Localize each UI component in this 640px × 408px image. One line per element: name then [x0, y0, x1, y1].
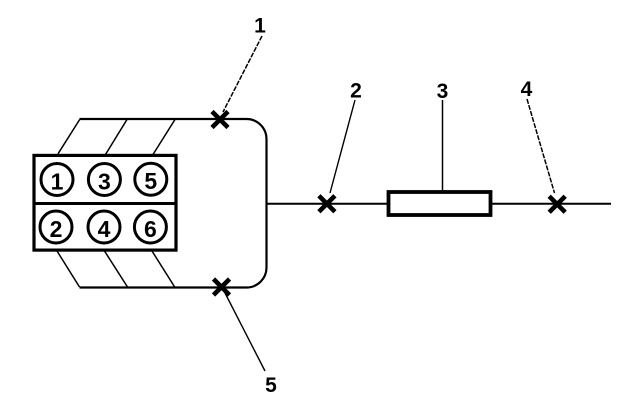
svg-text:2: 2 [350, 79, 362, 102]
cavity 4 [88, 211, 120, 243]
leader line to label 3 [442, 100, 444, 191]
svg-text:3: 3 [437, 80, 449, 103]
cavity 2 [40, 211, 72, 243]
test point X2 [319, 196, 335, 212]
test point X4 [549, 196, 565, 212]
test point X1 [212, 112, 228, 128]
housing divider [33, 202, 177, 205]
connector body outline (blob) [80, 119, 267, 288]
svg-text:1: 1 [254, 15, 266, 38]
leader line to label 1 [223, 36, 262, 112]
hatch wire B2 (bottom middle) [105, 251, 128, 287]
leader line to label 4 [527, 99, 555, 193]
test point X5 [214, 279, 230, 295]
svg-text:4: 4 [98, 216, 111, 242]
cavity 5 [135, 163, 167, 195]
wire (main horizontal lead) [267, 203, 612, 205]
svg-text:4: 4 [521, 78, 533, 101]
hatch wire H3 (top right) [153, 120, 175, 155]
hatch wire B1 (bottom left) [57, 251, 80, 287]
leader line to label 5 [225, 292, 266, 371]
svg-text:3: 3 [98, 168, 111, 194]
hatch wire B3 (bottom right) [152, 251, 175, 288]
component 3 box (in-line component) [389, 192, 491, 215]
svg-text:5: 5 [144, 168, 157, 194]
svg-text:2: 2 [50, 216, 63, 242]
cavity 3 [88, 164, 120, 196]
leader line to label 2 [330, 100, 355, 193]
hatch wire H1 (top left) [58, 120, 80, 154]
cavity 1 [41, 164, 73, 196]
connector block (6-cavity housing) [34, 155, 176, 250]
svg-text:5: 5 [265, 374, 277, 397]
svg-text:1: 1 [51, 168, 64, 194]
svg-text:6: 6 [144, 216, 157, 242]
cavity 6 [134, 211, 166, 243]
hatch wire H2 (top middle) [106, 120, 128, 155]
